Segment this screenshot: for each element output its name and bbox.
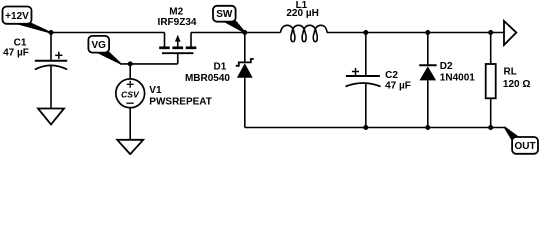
node OUT junction (RL top) [488,30,493,35]
svg-text:SW: SW [216,9,233,20]
svg-text:CSV: CSV [121,90,140,100]
node OUT junction (C2 top) [363,30,368,35]
svg-text:D1: D1 [214,62,227,73]
wire SW node down to D1 cathode [244,33,246,63]
svg-text:220 µH: 220 µH [286,8,318,19]
wire M2 drain to SW and L1 [191,32,280,34]
power flag +12V [3,7,51,33]
capacitor C1 [35,52,67,70]
wire L1 to output port (node OUT top rail) [327,32,504,34]
svg-text:47 µF: 47 µF [385,80,411,91]
svg-text:1N4001: 1N4001 [440,72,475,83]
node return junction (RL bottom) [488,125,493,130]
wire D2 cathode lead [427,33,429,66]
node return junction (D2 bottom) [425,125,430,130]
svg-text:D2: D2 [440,61,453,72]
capacitor C2 [346,68,381,87]
wire +12V rail (top left, node VIN) [50,32,164,34]
svg-text:PWSREPEAT: PWSREPEAT [149,97,212,108]
ground symbol (V1) [117,140,143,154]
svg-text:IRF9Z34: IRF9Z34 [158,17,197,28]
node SW junction [242,30,247,35]
svg-text:MBR0540: MBR0540 [185,73,230,84]
node VIN junction (C1 tap) [49,30,54,35]
wire C1 bottom lead to ground [50,66,52,109]
net flag VG [88,36,120,64]
ground symbol (C1) [38,109,64,125]
wire V1 plus lead [129,64,131,79]
svg-text:OUT: OUT [514,141,535,152]
resistor RL [486,64,496,98]
svg-text:M2: M2 [169,6,183,17]
diode D1 (Schottky) [236,59,254,78]
node OUT junction (D2 top) [425,30,430,35]
wire bottom return rail to OUT flag [245,127,506,129]
wire D1 anode down [244,78,246,128]
svg-text:VG: VG [91,40,106,51]
net flag SW [213,6,245,33]
svg-text:120 Ω: 120 Ω [503,79,530,90]
transistor M2 (P-channel MOSFET) [159,33,196,64]
wire RL top lead [490,33,492,65]
wire RL bottom lead [490,98,492,127]
node return junction (C2 bottom) [363,125,368,130]
output port arrow (top right) [504,21,516,45]
inductor L1 [280,25,327,41]
wire D2 anode lead [427,80,429,127]
wire C2 bottom lead [365,83,367,128]
wire VG net (gate drive) [120,63,178,65]
node VG junction (V1 tap) [128,61,133,66]
wire C2 top lead [365,33,367,76]
net flag OUT [505,127,538,154]
svg-text:V1: V1 [149,85,162,96]
svg-text:+12V: +12V [5,11,29,22]
svg-text:47 µF: 47 µF [3,47,29,58]
voltage source V1 (CSV piecewise source) [116,79,145,108]
svg-text:RL: RL [504,67,517,78]
wire C1 top lead [50,33,52,61]
diode D2 (1N4001) [419,65,436,80]
wire V1 minus lead to ground [129,108,131,141]
